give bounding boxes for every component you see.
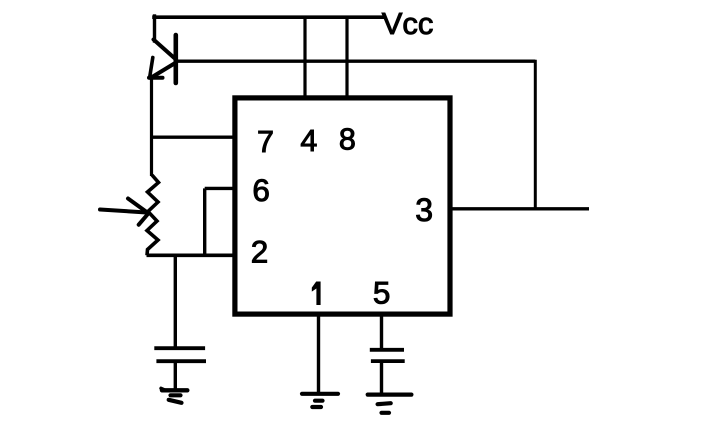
svg-text:Vcc: Vcc (382, 6, 434, 41)
ground G2 (302, 394, 338, 407)
wire emitter drop (150, 78, 153, 176)
wire pin 5 drop (380, 316, 383, 349)
wire pin 1 drop (317, 316, 320, 393)
wire pin 6 horizontal (205, 187, 233, 190)
wire pin 7 (152, 135, 234, 138)
wire collector riser (153, 16, 156, 41)
wire base to right (177, 60, 535, 63)
IC U1 555-timer box (235, 98, 450, 314)
svg-text:6: 6 (252, 172, 270, 208)
svg-text:3: 3 (415, 192, 433, 228)
wire pin 8 rail (345, 17, 348, 97)
ground G1 (161, 388, 187, 403)
transistor Q1 (149, 35, 176, 83)
svg-text:2: 2 (251, 234, 269, 270)
wire pin 3 output (452, 207, 589, 210)
capacitor C1 (154, 348, 206, 390)
capacitor C2 (370, 350, 405, 395)
pin 1 label (312, 282, 321, 306)
wire Vcc rail top (154, 15, 383, 19)
wire capacitor drop (174, 255, 177, 348)
resistor R1 zigzag (variable) (147, 175, 159, 255)
svg-text:5: 5 (373, 275, 391, 311)
wire pin 4 rail (303, 17, 306, 97)
svg-text:4: 4 (300, 124, 317, 158)
wire pin 6 vertical (203, 188, 206, 255)
ground G3 (368, 395, 412, 413)
arrow wiper (100, 199, 148, 225)
svg-text:8: 8 (339, 123, 356, 157)
svg-text:7: 7 (257, 125, 274, 159)
wire pin 2 horizontal (147, 254, 234, 258)
wire right vertical drop (534, 61, 537, 209)
